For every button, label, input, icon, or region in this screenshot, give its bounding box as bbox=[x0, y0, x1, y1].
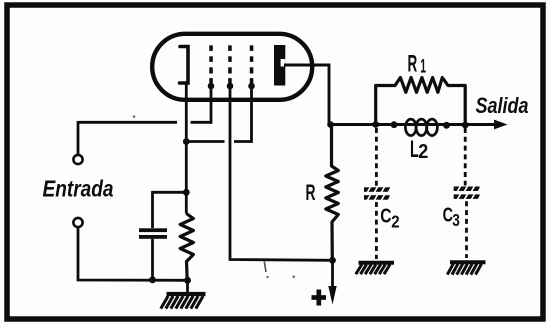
svg-text:1: 1 bbox=[420, 56, 426, 77]
svg-text:Salida: Salida bbox=[476, 93, 529, 118]
capacitor Ck (cathode bypass) bbox=[139, 228, 167, 239]
grid G3 (dashed column) bbox=[250, 45, 254, 83]
wire: input to grid G1 (with crossover gap at cathode line) bbox=[78, 121, 212, 124]
wire: dashed lead C2 to ground bbox=[375, 202, 378, 259]
resistor R (vertical, plate feed) bbox=[326, 125, 339, 261]
wire: screen grid G2 down and right to supply node bbox=[230, 86, 333, 260]
input terminal (lower) bbox=[73, 218, 82, 227]
svg-text:2: 2 bbox=[391, 213, 399, 232]
grid G2 (dashed column) bbox=[228, 45, 232, 83]
node: R bottom / screen supply junction bbox=[329, 257, 336, 264]
node: L2 left terminal bbox=[391, 121, 398, 128]
wire: faint stub below screen supply line bbox=[264, 262, 266, 273]
pin terminal dot G2 bbox=[227, 83, 234, 90]
wire: suppressor G3 to cathode (gap at G2 crossing) bbox=[186, 86, 251, 142]
svg-text:C: C bbox=[380, 204, 391, 227]
svg-text:Entrada: Entrada bbox=[43, 175, 114, 201]
svg-text:3: 3 bbox=[452, 211, 460, 230]
capacitor C3 (hatched plates) bbox=[454, 185, 482, 200]
wire: bypass capacitor bottom lead bbox=[151, 239, 154, 280]
arrowhead Salida output bbox=[494, 120, 508, 130]
wire: junction to ground bbox=[186, 280, 189, 293]
svg-text:2: 2 bbox=[418, 141, 428, 163]
input terminal (upper) bbox=[73, 155, 82, 164]
cathode K of tube bbox=[180, 47, 189, 84]
node: cathode / G3 tie bbox=[183, 138, 190, 145]
arrowhead + supply (B+) bbox=[331, 260, 334, 289]
svg-text:R: R bbox=[408, 51, 418, 78]
node: cap bottom / return wire bbox=[149, 276, 156, 283]
wire: main output line bbox=[329, 123, 496, 126]
wire: plate to output node bbox=[284, 65, 329, 125]
grid G1 (dashed column) bbox=[209, 45, 213, 83]
pin terminal dot G1 bbox=[208, 83, 215, 90]
node: cathode return / ground junction bbox=[184, 277, 191, 284]
wire: grid G1 lead down bbox=[210, 86, 213, 124]
wire: cathode node to bypass capacitor top bbox=[153, 192, 187, 228]
wire: upper terminal to input line bbox=[77, 121, 80, 155]
pin terminal dot G3 bbox=[248, 83, 255, 90]
resistor Rk (cathode) bbox=[180, 214, 193, 281]
label + (supply) bbox=[312, 290, 327, 306]
ground (below C2) bbox=[356, 263, 394, 274]
node: cathode / bypass cap tie bbox=[183, 189, 190, 196]
wire: lower terminal down and right to cathode return bbox=[78, 227, 188, 280]
plate (anode) bar of tube bbox=[274, 45, 285, 86]
svg-text:R: R bbox=[306, 180, 316, 205]
ground (below C3) bbox=[447, 262, 485, 274]
wire: dashed lead C3 to ground bbox=[465, 201, 468, 258]
wire: cathode lead down bbox=[185, 83, 188, 214]
wire: dashed lead node B to C3 bbox=[464, 128, 467, 186]
node A (R1 left / C2 branch) bbox=[372, 121, 379, 128]
wire: dashed lead node A to C2 bbox=[375, 128, 378, 186]
node: plate junction bbox=[327, 121, 334, 128]
node B (R1 right / C3 branch) bbox=[462, 122, 469, 129]
tube V1 envelope bbox=[152, 34, 312, 100]
node: L2 right terminal bbox=[443, 122, 450, 129]
ground (cathode return) bbox=[161, 294, 206, 309]
capacitor C2 (hatched plates) bbox=[364, 186, 392, 201]
inductor L2 bbox=[405, 119, 437, 135]
resistor R1 (parallel branch) bbox=[376, 78, 466, 125]
